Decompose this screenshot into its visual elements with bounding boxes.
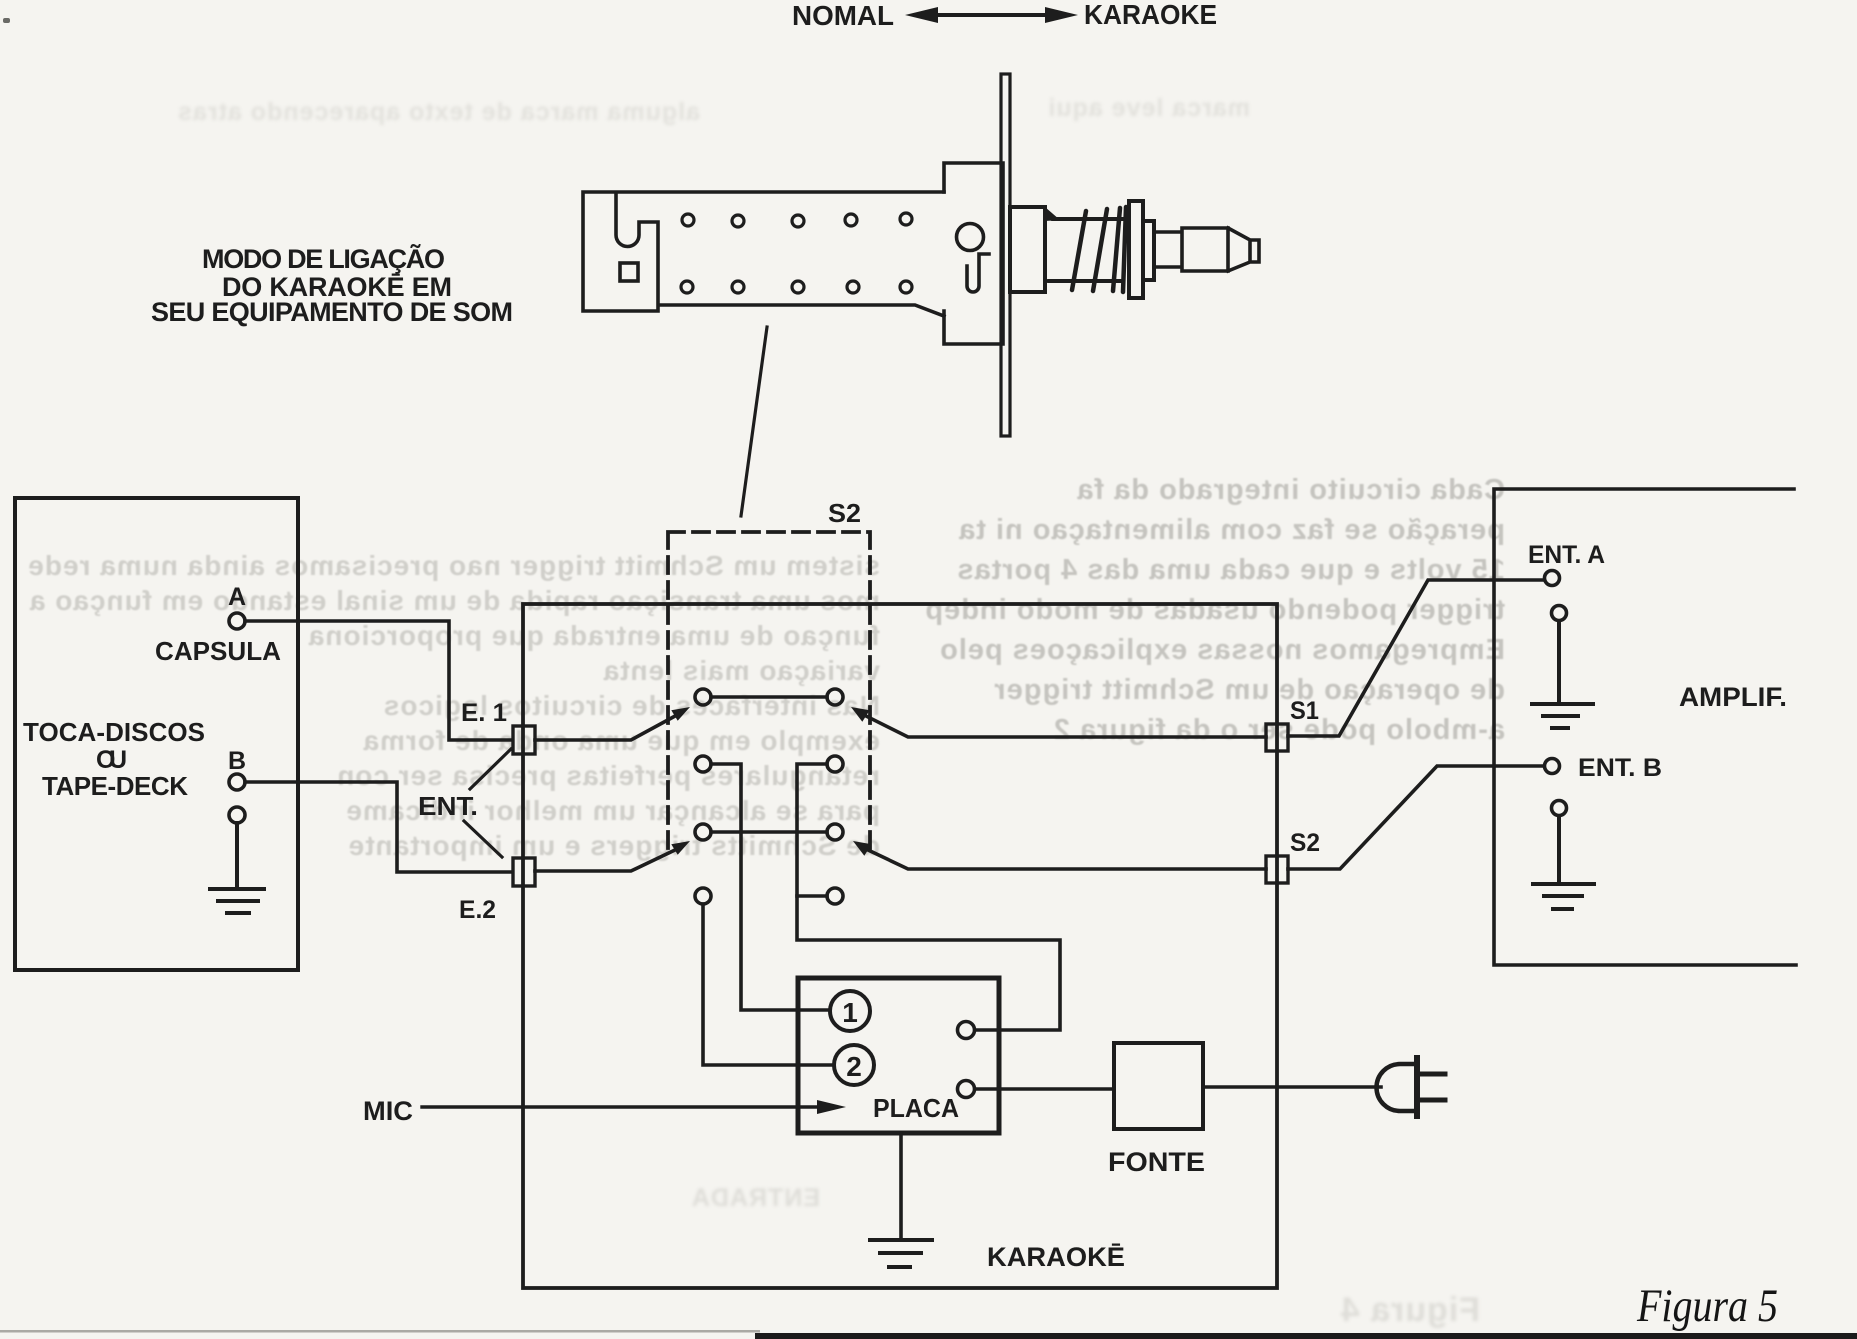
svg-text:S1: S1 <box>1290 697 1319 725</box>
wire row2-left contact to PLACA pin 1 <box>711 764 829 1010</box>
junction E.2 <box>513 858 535 886</box>
wire row2-right and row4-right contacts to PLACA output pin <box>797 764 1060 1030</box>
wire PLACA pin to FONTE <box>975 1087 1114 1091</box>
pointer ENT. to E.2 <box>464 821 502 857</box>
wire FONTE to mains plug <box>1203 1085 1381 1089</box>
PLACA output pin upper <box>958 1022 975 1039</box>
ground symbol PLACA <box>870 1240 932 1267</box>
wire stub row4-right to vertical <box>797 894 827 898</box>
switch collar after washer <box>1143 221 1154 280</box>
ground terminal under ENT.B <box>1552 801 1567 816</box>
wire B to E.2 <box>245 782 512 872</box>
svg-text:SEU EQUIPAMENTO DE SOM: SEU EQUIPAMENTO DE SOM <box>151 297 513 327</box>
switch plunger shaft <box>1154 228 1259 271</box>
wire S1 into box with arrow <box>851 707 1266 737</box>
svg-text:FONTE: FONTE <box>1108 1147 1205 1177</box>
toca-discos box <box>15 498 298 970</box>
svg-text:KARAOKĒ: KARAOKĒ <box>987 1242 1125 1272</box>
karaoke outer box <box>523 604 1277 1288</box>
switch pole1 contacts row1 <box>695 689 843 705</box>
ground symbol amp A <box>1532 621 1593 728</box>
junction S1 <box>1266 724 1288 751</box>
switch body square hole <box>620 263 638 281</box>
bleed-through marks top <box>60 92 700 132</box>
svg-text:Figura 5: Figura 5 <box>1636 1280 1778 1332</box>
svg-text:S2: S2 <box>828 498 861 528</box>
terminal circle 2 <box>834 1045 874 1085</box>
svg-text:ENT.: ENT. <box>418 791 478 821</box>
switch contacts row4 <box>695 888 843 904</box>
svg-text:ENT. B: ENT. B <box>1578 754 1662 782</box>
switch S2 mechanical view: body plate <box>583 192 944 316</box>
svg-text:CAPSULA: CAPSULA <box>155 636 281 666</box>
svg-text:KARAOKE: KARAOKE <box>1084 0 1217 30</box>
svg-text:E. 1: E. 1 <box>461 699 507 727</box>
svg-text:B: B <box>228 747 246 775</box>
scan edge bottom bar <box>0 1330 1857 1339</box>
svg-text:S2: S2 <box>1290 829 1320 857</box>
wire S2 to ENT.B <box>1288 766 1544 869</box>
switch contacts row2 <box>695 756 843 772</box>
terminal B <box>229 774 245 790</box>
svg-text:ENT. A: ENT. A <box>1528 541 1605 569</box>
switch spring <box>1045 207 1128 292</box>
switch central latch block <box>944 163 1003 344</box>
amplifier box <box>1494 489 1796 965</box>
wire row4-left contact to PLACA pin 2 <box>703 904 832 1065</box>
svg-text:TAPE-DECK: TAPE-DECK <box>42 771 188 801</box>
wire A to E.1 <box>245 621 512 740</box>
wire S1 to ENT.A <box>1288 580 1544 736</box>
PLACA board box <box>798 978 999 1133</box>
ground terminal under ENT.A <box>1552 606 1567 621</box>
switch mounting plate <box>1001 74 1010 436</box>
svg-text:2: 2 <box>846 1051 862 1082</box>
PLACA ground stem <box>899 1133 903 1239</box>
MIC arrow to PLACA <box>422 1100 846 1114</box>
PLACA output pin lower <box>958 1081 975 1098</box>
svg-text:NOMAL: NOMAL <box>792 0 894 31</box>
svg-text:OU: OU <box>96 746 127 774</box>
switch body contact holes top row <box>682 213 912 227</box>
ground terminal under B <box>229 807 245 823</box>
scan speck top-left <box>3 18 10 23</box>
svg-text:PLACA: PLACA <box>873 1093 959 1123</box>
junction S2 (box edge) <box>1266 856 1288 883</box>
terminal A <box>229 613 245 629</box>
ground symbol left <box>210 823 264 913</box>
FONTE box <box>1114 1043 1203 1129</box>
switch washer flange <box>1129 201 1143 298</box>
switch spring seat collar <box>1010 207 1045 292</box>
terminal circle 1 <box>830 991 870 1031</box>
wire S2 into box with arrow <box>853 841 1266 869</box>
dashed box S2 <box>668 532 870 853</box>
terminal ENT.B <box>1545 759 1560 774</box>
svg-text:AMPLIF.: AMPLIF. <box>1679 682 1787 712</box>
ground symbol amp B <box>1533 816 1594 909</box>
switch body contact holes bottom row <box>681 281 912 293</box>
bleed-through paragraph left column <box>30 548 880 863</box>
wire E.1 into box with arrow <box>535 707 690 740</box>
double-headed mode arrow <box>905 7 1078 23</box>
label TOCA-DISCOS OU TAPE-DECK <box>23 717 205 801</box>
svg-text:TOCA-DISCOS: TOCA-DISCOS <box>23 717 205 747</box>
pointer line from switch body to dashed S2 box <box>741 327 767 516</box>
bleed-through paragraph right column <box>985 470 1505 750</box>
junction E.1 <box>513 726 535 754</box>
caption: MODO DE LIGACAO DO KARAOKE EM SEU EQUIPAMENTO DE SOM <box>151 243 513 327</box>
switch pole2 contacts row3 <box>695 824 843 840</box>
svg-text:MIC: MIC <box>363 1096 413 1126</box>
svg-text:A: A <box>228 583 246 611</box>
mains plug <box>1377 1058 1446 1116</box>
terminal ENT.A <box>1545 571 1560 586</box>
wire E.2 into box with arrow <box>535 841 690 871</box>
svg-text:E.2: E.2 <box>459 896 496 924</box>
svg-text:MODO DE LIGAÇÃO: MODO DE LIGAÇÃO <box>202 243 445 274</box>
pointer ENT. to E.1 <box>470 749 511 789</box>
svg-text:1: 1 <box>842 997 858 1028</box>
